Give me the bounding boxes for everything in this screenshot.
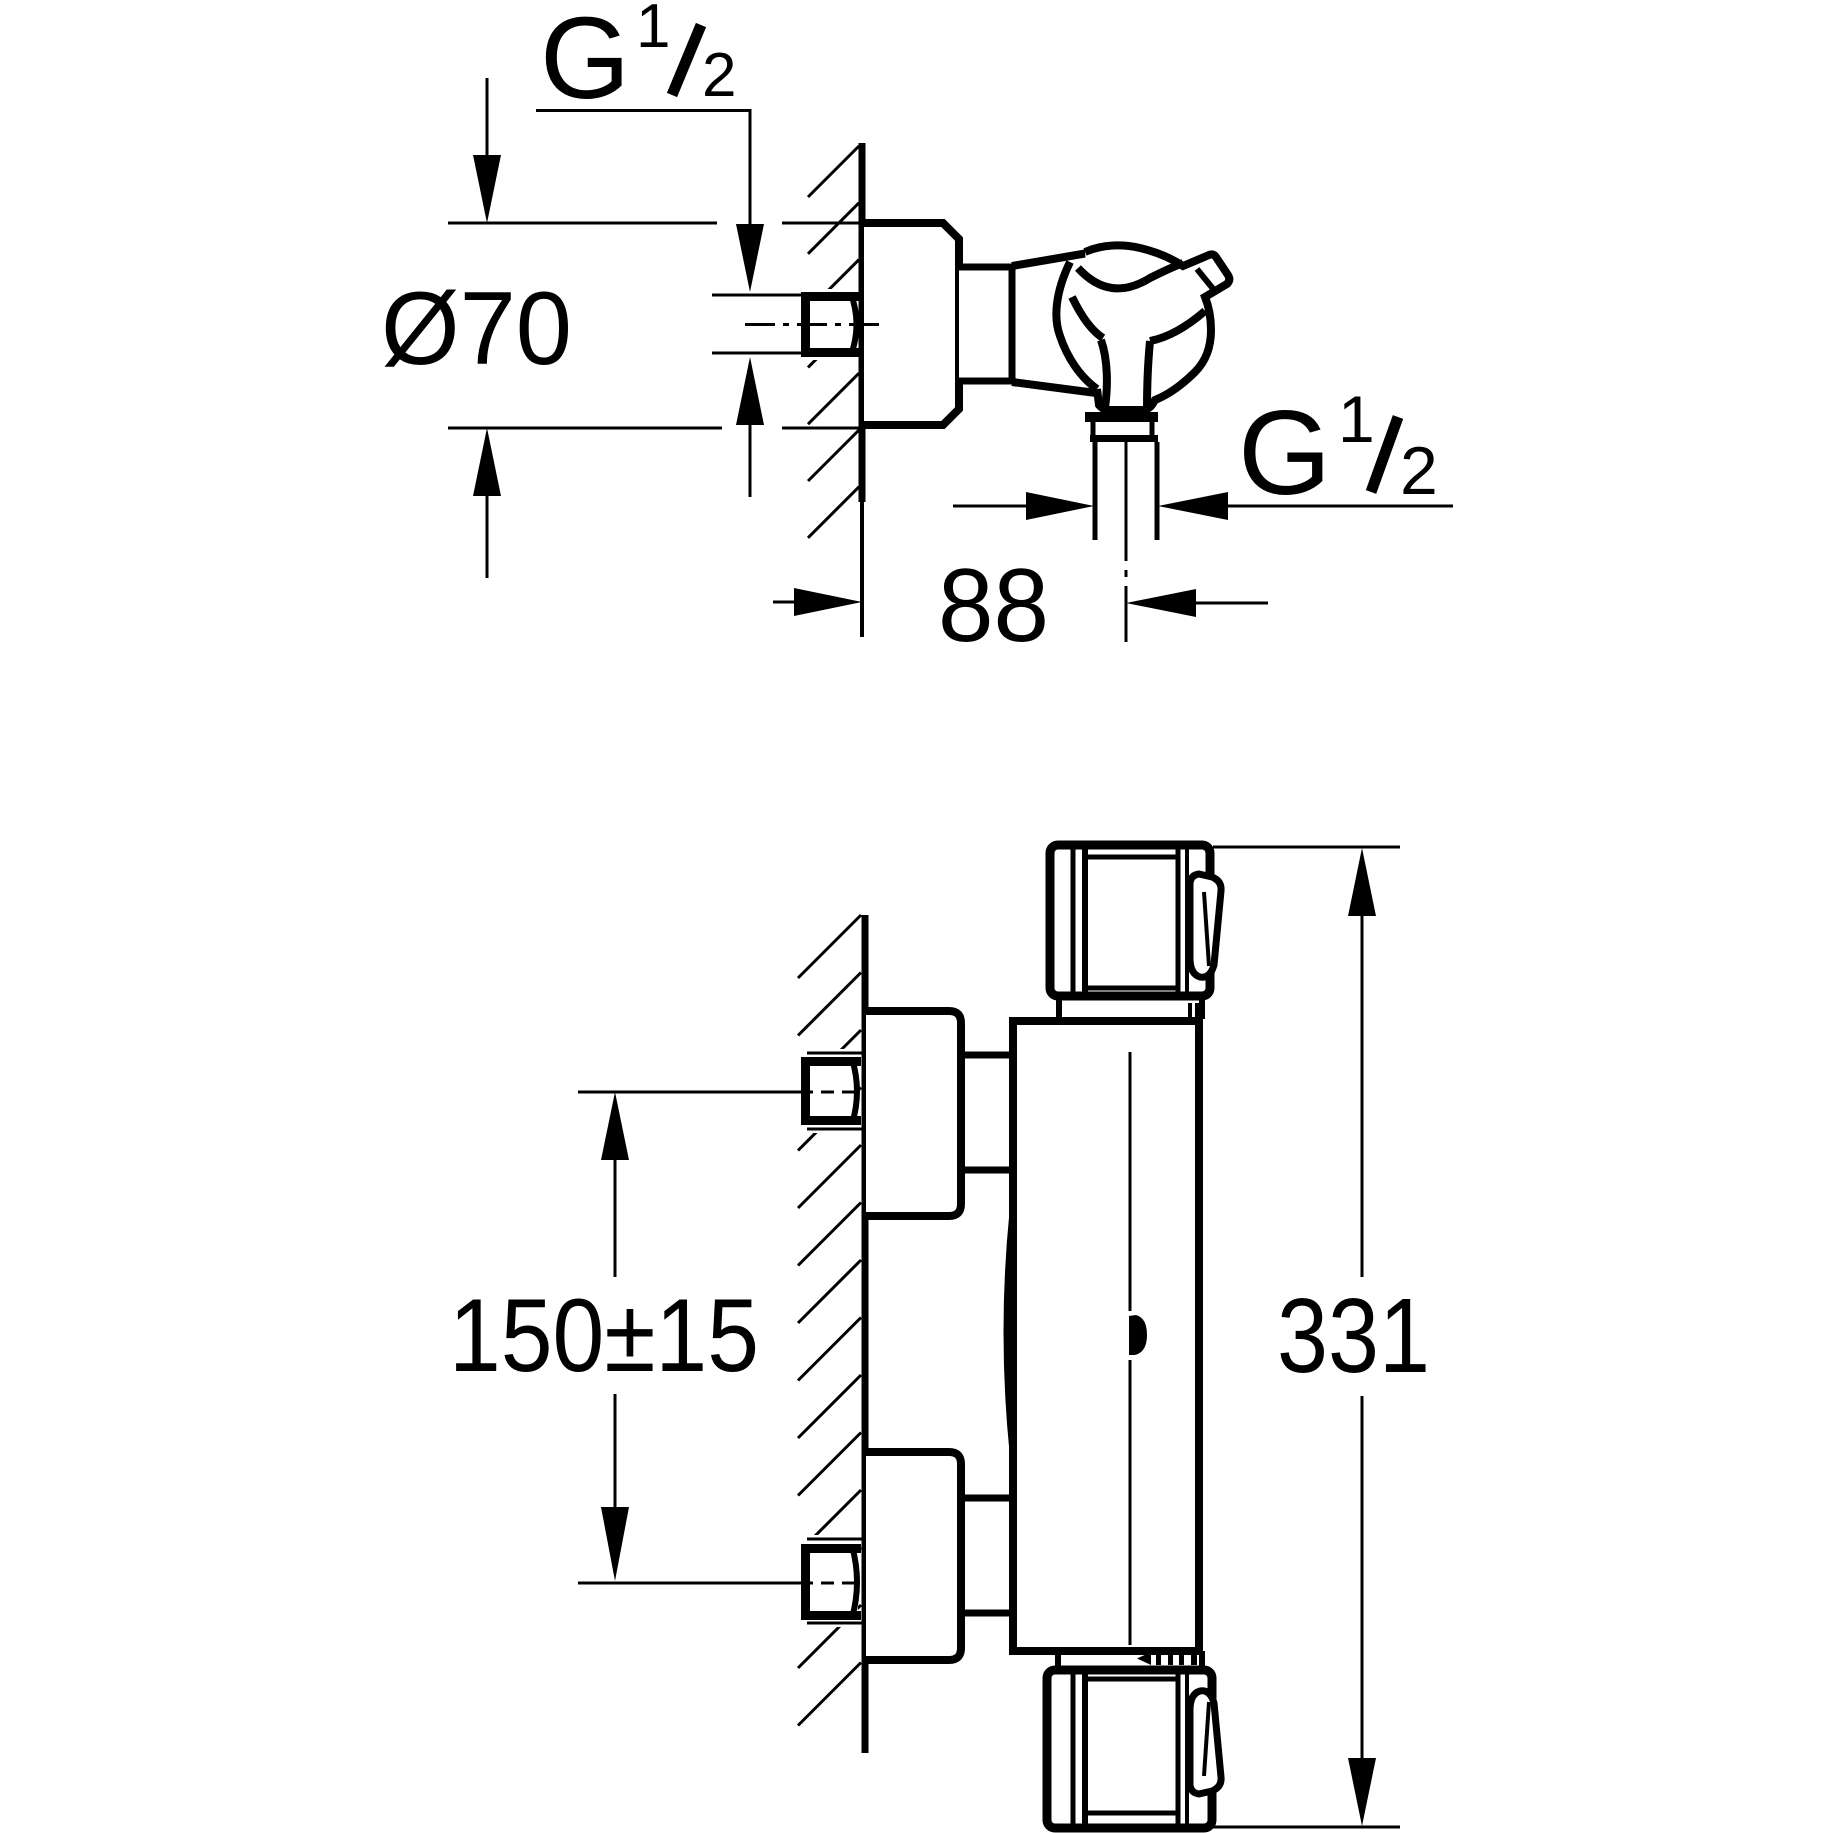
- temperature lever: [1190, 1691, 1221, 1794]
- upper inlet nut: bottom face line: [807, 1128, 862, 1131]
- wall hatching (side view): [808, 146, 859, 538]
- dimension Ø70: upper arrow: [486, 78, 489, 158]
- upper inlet nut white backing: [795, 1049, 858, 1133]
- temperature knob inner lines: [1071, 1674, 1076, 1824]
- shut-off lever: [1190, 874, 1221, 977]
- svg-text:G: G: [1238, 386, 1331, 520]
- escutcheon flange (side view): [864, 223, 959, 425]
- lower inlet centerline: [578, 1582, 800, 1585]
- safestop button: [1129, 1315, 1147, 1355]
- wall surface extension line (to 88 dimension): [860, 502, 864, 637]
- handle skirt arc (left side of knob): [1056, 262, 1097, 389]
- hose centerline: [1125, 441, 1128, 642]
- temperature scale ticks: [1156, 1652, 1161, 1665]
- outlet upper flange: [1085, 412, 1158, 422]
- valve body bottom edge (side view): [1012, 382, 1096, 393]
- wall hatching (front view): [798, 915, 861, 1726]
- lower inlet nut white backing: [795, 1535, 858, 1627]
- lower inlet nut: chamfer arc: [852, 1546, 857, 1618]
- nut extension line bottom: [712, 352, 801, 355]
- S-union step (side view): [959, 267, 1012, 381]
- svg-text:331: 331: [1277, 1277, 1430, 1395]
- wall line (side view): [859, 143, 866, 502]
- upper inlet nut: bottom bar: [801, 1116, 861, 1125]
- dimension 150±15: down arrow: [601, 1507, 629, 1581]
- dimension 150±15: vertical line upper segment: [614, 1158, 617, 1277]
- handle tab inner line: [1197, 269, 1214, 290]
- shower hose right line: [1155, 442, 1160, 540]
- temperature knob (bottom of front view): [1047, 1670, 1212, 1828]
- lower inlet nut (front): top face line: [807, 1538, 862, 1541]
- dimension 150±15: up arrow: [601, 1092, 629, 1160]
- upper S-union step (front): [961, 1055, 1013, 1170]
- lower inlet nut: bottom face line: [807, 1622, 862, 1625]
- dimension 88: right arrow: [1126, 589, 1196, 617]
- dimension 331: vertical line lower segment: [1361, 1396, 1364, 1760]
- body centerline: [1129, 1052, 1132, 1311]
- dimension 331: up arrow: [1348, 848, 1376, 916]
- inlet nipple nut (side view): top bar: [801, 292, 862, 301]
- upper inlet nut: left edge: [801, 1057, 810, 1125]
- dimension G 1/2 (hose): right arrow: [1158, 492, 1228, 520]
- inlet nipple centerline: [745, 323, 880, 326]
- svg-text:2: 2: [1400, 433, 1438, 509]
- inlet nipple nut: left edge: [801, 292, 810, 357]
- arrow to nut bottom: [736, 357, 764, 425]
- temperature knob neck: [1055, 1651, 1061, 1670]
- dimension 150±15: vertical line lower segment: [614, 1394, 617, 1509]
- dimension 331: down arrow: [1348, 1758, 1376, 1826]
- lower inlet nut: left edge: [801, 1544, 810, 1620]
- inlet nipple nut: chamfer arc: [851, 294, 857, 355]
- upper mounting escutcheon (front): [866, 1011, 961, 1216]
- lower inlet nut: bottom bar: [801, 1611, 861, 1620]
- dimension Ø70: top extension line: [448, 222, 717, 225]
- handle knob outer outline (side view tri-lobe): [1085, 245, 1229, 410]
- inlet nipple nut: bottom bar: [801, 348, 862, 357]
- dimension 331: top extension line: [1213, 846, 1400, 849]
- lower mounting escutcheon (front): [866, 1452, 961, 1660]
- lower inlet nut: top bar: [801, 1544, 861, 1553]
- shut-off knob (top of front view): [1050, 845, 1210, 996]
- inlet nipple nut white backing: [795, 289, 858, 360]
- svg-text:1: 1: [1338, 382, 1375, 456]
- upper inlet nut (front): top face line: [807, 1052, 862, 1055]
- dimension 331: bottom extension line: [1213, 1826, 1400, 1829]
- handle inner contour: left wing: [1072, 297, 1103, 338]
- outlet nut sides: [1091, 422, 1096, 435]
- shut-off knob neck: [1056, 996, 1062, 1019]
- temperature scale arrow: [1137, 1652, 1151, 1665]
- wall line (front view): [862, 915, 869, 1753]
- upper inlet centerline: [578, 1091, 800, 1094]
- dimension Ø70: lower arrow: [473, 428, 501, 496]
- svg-text:Ø70: Ø70: [381, 271, 572, 387]
- handle hub trunk right: [1147, 341, 1150, 408]
- nut extension line top: [712, 294, 801, 297]
- upper inlet nut: top bar: [801, 1057, 861, 1066]
- handle hub trunk left: [1101, 340, 1107, 408]
- shower hose left line: [1093, 442, 1098, 540]
- svg-text:G: G: [540, 0, 630, 123]
- leader arrow to nut top: [736, 224, 764, 292]
- dimension G 1/2 (hose): left arrow: [953, 505, 1028, 508]
- valve body top edge (side view): [1012, 253, 1088, 266]
- svg-text:2: 2: [702, 41, 736, 110]
- lower S-union step (front): [961, 1498, 1013, 1613]
- dimension 331: vertical line upper segment: [1361, 914, 1364, 1277]
- svg-text:1: 1: [636, 0, 670, 61]
- svg-text:88: 88: [938, 548, 1049, 664]
- outlet lower flange: [1090, 435, 1158, 442]
- upper inlet nut: chamfer arc: [852, 1059, 857, 1124]
- svg-text:150±15: 150±15: [449, 1278, 759, 1394]
- leader line G 1/2 (top): [536, 111, 750, 227]
- handle inner contour: top lens: [1078, 263, 1183, 288]
- shut-off knob inner lines: [1071, 849, 1076, 992]
- dimension 88: left arrow: [773, 601, 798, 604]
- handle inner contour: right wing: [1150, 311, 1205, 341]
- body cartridge bulge: [1007, 1212, 1013, 1452]
- thermostat body (front): [1013, 1021, 1199, 1651]
- shut-off neck marks: [1188, 1003, 1192, 1017]
- dimension Ø70: bottom extension line: [448, 427, 722, 430]
